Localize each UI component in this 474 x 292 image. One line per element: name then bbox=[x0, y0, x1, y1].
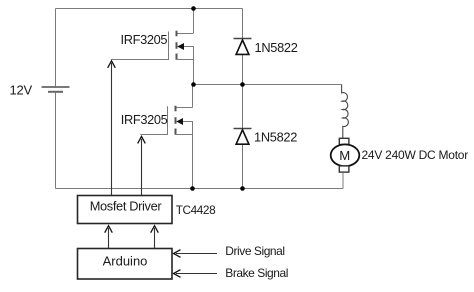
svg-text:24V 240W DC Motor: 24V 240W DC Motor bbox=[362, 148, 469, 162]
wire top rail bbox=[56, 8, 243, 10]
wire bottom rail bbox=[56, 188, 344, 190]
svg-text:1N5822: 1N5822 bbox=[254, 130, 297, 145]
svg-text:Brake Signal: Brake Signal bbox=[225, 266, 288, 280]
motor M 24V 240W DC Motor bbox=[331, 138, 360, 188]
wire diode column bbox=[242, 9, 244, 189]
diode D1 1N5822 bbox=[234, 39, 252, 55]
wire mid rail bbox=[194, 84, 342, 86]
wire arduino to driver arrow 2 bbox=[151, 226, 159, 249]
wire gate drive 2 bbox=[138, 136, 146, 195]
wire drive signal arrow bbox=[174, 250, 218, 258]
junction dot mid rail left bbox=[191, 82, 196, 87]
mosfet Q2 IRF3205 (lower) bbox=[140, 85, 192, 189]
wire gate drive 1 bbox=[108, 61, 116, 196]
wire arduino to driver arrow 1 bbox=[105, 226, 113, 249]
mosfet Q1 IRF3205 (upper) bbox=[111, 9, 194, 85]
svg-text:12V: 12V bbox=[10, 82, 33, 97]
junction dot top rail bbox=[191, 6, 196, 11]
svg-text:Arduino: Arduino bbox=[103, 254, 148, 269]
wire battery bottom lead bbox=[55, 93, 57, 189]
junction dot mid rail diode bbox=[240, 82, 245, 87]
battery V1 12V bbox=[42, 87, 70, 92]
svg-text:TC4428: TC4428 bbox=[176, 203, 216, 217]
svg-text:Drive Signal: Drive Signal bbox=[225, 244, 284, 258]
svg-text:1N5822: 1N5822 bbox=[255, 40, 298, 55]
svg-text:M: M bbox=[339, 148, 350, 163]
diode D2 1N5822 bbox=[234, 129, 252, 145]
box U1 Mosfet Driver bbox=[78, 196, 173, 224]
box U2 Arduino bbox=[78, 249, 173, 280]
svg-text:IRF3205: IRF3205 bbox=[121, 112, 168, 127]
inductor L1 (motor winding) bbox=[342, 85, 349, 139]
wire battery top lead bbox=[55, 9, 57, 87]
svg-text:Mosfet Driver: Mosfet Driver bbox=[90, 199, 163, 214]
junction dot bottom rail left bbox=[190, 186, 195, 191]
svg-text:IRF3205: IRF3205 bbox=[121, 32, 168, 47]
junction dot bottom rail diode bbox=[240, 186, 245, 191]
wire brake signal arrow bbox=[174, 270, 218, 278]
